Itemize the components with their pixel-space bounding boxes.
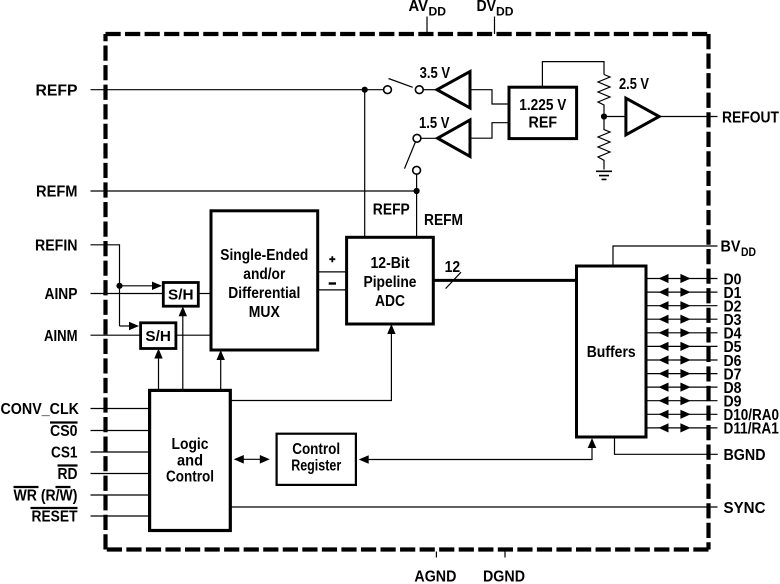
switch S2 lever xyxy=(405,142,416,169)
svg-text:DD: DD xyxy=(429,6,447,18)
pin label REFOUT xyxy=(722,109,779,126)
node junction on REFIN branch xyxy=(116,283,122,289)
svg-text:DD: DD xyxy=(496,6,514,18)
data line D4 xyxy=(646,326,742,343)
svg-text:CS0: CS0 xyxy=(50,423,78,440)
wire WR xyxy=(91,494,150,496)
wire buffer 3.5V to REF box xyxy=(470,90,509,104)
svg-text:Differential: Differential xyxy=(228,285,300,302)
MUX block xyxy=(211,211,318,350)
wire REFM to ADC xyxy=(416,174,418,237)
svg-text:D11/RA1: D11/RA1 xyxy=(724,421,780,438)
pin label CONV_CLK xyxy=(1,401,80,418)
svg-text:DV: DV xyxy=(477,0,497,15)
svg-text:REFP: REFP xyxy=(373,202,410,219)
wire REFP to ADC xyxy=(364,90,366,238)
svg-text:Register: Register xyxy=(291,457,341,474)
svg-text:REFIN: REFIN xyxy=(35,237,78,254)
wire AINM xyxy=(91,334,141,336)
wire clock to MUX with arrow xyxy=(217,350,225,390)
svg-text:REF: REF xyxy=(529,114,558,131)
data line D11/RA1 xyxy=(646,421,779,438)
svg-text:MUX: MUX xyxy=(249,304,281,321)
resistor R1 upper xyxy=(598,75,610,114)
switch S2 circles xyxy=(413,134,421,174)
data line D2 xyxy=(646,299,742,316)
svg-text:and: and xyxy=(177,452,203,469)
pin label SYNC xyxy=(724,500,766,517)
svg-text:Control: Control xyxy=(292,441,340,458)
wire RD xyxy=(91,473,150,475)
data line D7 xyxy=(646,366,742,383)
svg-text:AGND: AGND xyxy=(414,569,456,584)
wire S/H upper output xyxy=(198,293,211,295)
svg-text:WR (R/W): WR (R/W) xyxy=(14,488,78,505)
buffer amp 1.5V xyxy=(438,120,470,156)
svg-text:Control: Control xyxy=(166,469,214,486)
wire clock to ADC with arrow xyxy=(230,324,395,401)
pin label REFP xyxy=(36,82,78,99)
pin label CS1 xyxy=(51,445,78,462)
svg-text:Logic: Logic xyxy=(172,436,209,453)
wire RESET xyxy=(91,515,150,517)
label REFM internal xyxy=(424,212,463,229)
svg-text:Single-Ended: Single-Ended xyxy=(220,247,308,264)
wire AINP xyxy=(91,293,164,295)
svg-text:S/H: S/H xyxy=(168,287,194,304)
node REFM junction xyxy=(414,188,420,194)
wire REFP xyxy=(91,89,384,91)
data line D6 xyxy=(646,353,742,370)
S/H U2 lower xyxy=(141,323,176,349)
svg-text:12-Bit: 12-Bit xyxy=(371,255,410,272)
wire clock to upper S/H with arrow xyxy=(179,306,187,390)
switch S1 circles xyxy=(384,86,424,94)
svg-text:RD: RD xyxy=(58,466,78,483)
wire REFM xyxy=(91,190,417,192)
switch S1 lever xyxy=(389,79,413,88)
wire SYNC xyxy=(230,506,717,508)
pin DVDD xyxy=(477,0,514,34)
svg-text:3.5 V: 3.5 V xyxy=(420,65,451,82)
minus sign xyxy=(329,282,336,284)
wire switch S2 to buffer xyxy=(421,137,438,139)
svg-text:2.5 V: 2.5 V xyxy=(619,76,650,93)
wire switch S1 to buffer xyxy=(423,89,437,91)
wire REFOUT xyxy=(659,116,717,118)
svg-text:AINM: AINM xyxy=(44,328,78,345)
pin label WR (R/W) with overlines xyxy=(14,487,78,505)
bus slash xyxy=(446,272,461,288)
data line D0 xyxy=(646,271,742,288)
wire REFIN branch to lower S/H with arrow xyxy=(120,322,140,330)
bidirectional arrow L&C to Control Register xyxy=(234,455,270,464)
label REFP internal xyxy=(373,202,410,219)
svg-text:DD: DD xyxy=(741,247,756,259)
package dashed border xyxy=(106,34,709,550)
plus sign xyxy=(329,256,335,262)
wire MUX plus output xyxy=(318,271,347,273)
svg-text:CONV_CLK: CONV_CLK xyxy=(1,401,80,418)
wire REF box top to divider xyxy=(542,62,604,88)
wire buffer 1.5V to REF box xyxy=(470,123,509,139)
wire CS0 xyxy=(91,430,150,432)
pin label CS0 with overline xyxy=(50,423,78,441)
svg-text:ADC: ADC xyxy=(375,293,405,310)
wire Control Register to Buffers with arrows xyxy=(359,438,597,464)
data line D5 xyxy=(646,339,742,356)
svg-text:REFOUT: REFOUT xyxy=(722,109,779,126)
label 3.5 V xyxy=(420,65,451,82)
bus ADC to Buffers xyxy=(433,279,576,282)
svg-text:BV: BV xyxy=(721,239,742,256)
svg-text:DGND: DGND xyxy=(483,569,525,584)
pin label BVDD xyxy=(721,239,757,259)
label 1.5 V xyxy=(419,115,450,132)
label 2.5 V xyxy=(619,76,650,93)
wire S/H lower output xyxy=(176,334,211,336)
wire REFIN elbow xyxy=(91,245,120,326)
svg-text:1.5 V: 1.5 V xyxy=(419,115,450,132)
wire clock to lower S/H with arrow xyxy=(154,349,162,391)
pin AVDD xyxy=(409,0,447,34)
svg-text:1.225 V: 1.225 V xyxy=(519,97,567,114)
svg-text:AV: AV xyxy=(409,0,429,15)
S/H U1 upper xyxy=(163,283,198,307)
svg-text:CS1: CS1 xyxy=(51,445,78,462)
svg-text:BGND: BGND xyxy=(724,447,766,464)
pin label RESET with overline xyxy=(31,508,78,526)
pin DGND xyxy=(483,552,525,584)
svg-text:and/or: and/or xyxy=(243,266,285,283)
buffer amp 2.5V output xyxy=(626,98,659,135)
pin label BGND xyxy=(724,447,766,464)
Control Register block xyxy=(277,434,356,485)
wire MUX minus output xyxy=(318,289,347,291)
svg-text:S/H: S/H xyxy=(145,328,171,345)
svg-text:SYNC: SYNC xyxy=(724,500,766,517)
svg-text:REFM: REFM xyxy=(36,184,78,201)
pin label AINP xyxy=(45,286,78,303)
resistor R2 lower xyxy=(598,117,610,170)
data line D1 xyxy=(646,285,742,302)
svg-text:Pipeline: Pipeline xyxy=(364,274,417,291)
data line D9 xyxy=(646,394,742,411)
data line D10/RA0 xyxy=(646,407,779,424)
label 12 xyxy=(445,259,461,276)
node divider tap xyxy=(601,113,607,119)
pin label REFIN xyxy=(35,237,78,254)
data line D3 xyxy=(646,312,742,329)
wire CONV_CLK xyxy=(91,408,150,410)
svg-text:12: 12 xyxy=(445,259,461,276)
ground xyxy=(596,171,612,179)
pin label AINM xyxy=(44,328,78,345)
svg-text:RESET: RESET xyxy=(32,509,78,526)
pin label RD with overline xyxy=(58,466,78,484)
pin AGND xyxy=(414,552,456,584)
Buffers block xyxy=(577,266,647,437)
data line D8 xyxy=(646,380,742,397)
svg-text:REFM: REFM xyxy=(424,212,463,229)
wire tap to buffer xyxy=(607,116,626,118)
pin label REFM xyxy=(36,184,78,201)
wire BGND xyxy=(615,437,718,454)
svg-text:Buffers: Buffers xyxy=(587,344,636,361)
node REFP junction xyxy=(362,87,368,93)
wire BVDD xyxy=(613,246,718,266)
REF block 1.225V xyxy=(509,87,577,138)
svg-text:AINP: AINP xyxy=(45,286,78,303)
buffer amp 3.5V xyxy=(437,72,470,108)
wire CS1 xyxy=(91,451,150,453)
ADC block xyxy=(347,237,434,324)
wire REFIN branch to upper S/H with arrow xyxy=(120,282,163,290)
svg-text:REFP: REFP xyxy=(36,82,78,99)
Logic and Control block xyxy=(150,390,231,530)
